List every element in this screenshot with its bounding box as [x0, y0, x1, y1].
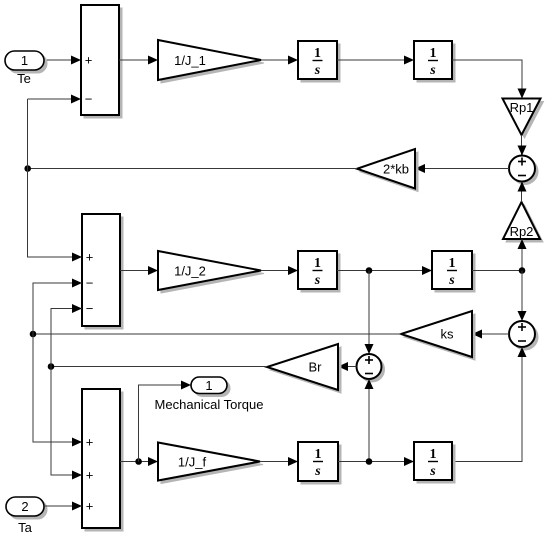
svg-text:s: s	[448, 273, 455, 288]
svg-text:Te: Te	[17, 71, 31, 86]
svg-text:−: −	[85, 92, 93, 107]
svg-text:1: 1	[449, 256, 456, 271]
wire rail up to Sum1 minus corner	[27, 99, 29, 169]
wire Sum1 to gain 1/J_1	[119, 56, 158, 65]
wire Rp2 to C1 bottom	[518, 182, 527, 203]
svg-text:2: 2	[21, 499, 28, 514]
output port 1 (Mechanical Torque)	[191, 377, 230, 397]
node junction at (51,366.5)	[48, 363, 55, 370]
wire rail down to S3 plus2	[51, 367, 82, 480]
wire ks to left rail x=33	[33, 333, 401, 335]
svg-text:2*kb: 2*kb	[383, 162, 409, 177]
wire I22 to node(522,270.5)	[472, 270, 522, 272]
svg-text:1: 1	[314, 46, 321, 61]
integrator I11 (1/s)	[298, 41, 340, 82]
svg-text:Br: Br	[309, 360, 323, 375]
svg-text:s: s	[314, 464, 321, 479]
wire 1/J_f to I41	[260, 457, 298, 466]
wire I11 to I12	[337, 56, 414, 65]
svg-text:+: +	[86, 250, 94, 265]
svg-text:−: −	[86, 301, 94, 316]
wire I21 to I22 with junction	[337, 266, 432, 275]
wire 1/J_2 to I21	[261, 266, 298, 275]
svg-text:+: +	[85, 53, 93, 68]
wire rail down to S3 plus1	[33, 334, 82, 447]
wire branch up to output port 1	[139, 381, 191, 462]
wire Ta to S3 plus3	[44, 502, 82, 511]
svg-text:1: 1	[430, 447, 437, 462]
svg-text:1: 1	[205, 378, 212, 393]
svg-text:Rp1: Rp1	[510, 100, 534, 115]
wire node(522,270.5) down to sum circle C2 top	[518, 271, 527, 322]
wire rail up to S2 minus1	[33, 279, 82, 335]
svg-text:1/J_2: 1/J_2	[174, 264, 206, 279]
svg-text:+: +	[86, 435, 94, 450]
sum block S2	[82, 214, 123, 329]
svg-text:s: s	[314, 273, 321, 288]
node junction at (33,334)	[30, 331, 37, 338]
gain 1/J_2	[158, 251, 264, 293]
gain Br (left)	[267, 344, 341, 393]
wire rail down to Sum2 plus corner	[28, 169, 82, 258]
sum block S1	[81, 5, 122, 118]
wire gain 1/J_1 to integrator I11	[261, 56, 298, 65]
wire C4 to gain Br	[338, 362, 357, 371]
svg-text:ks: ks	[441, 327, 455, 342]
svg-text:+: +	[86, 468, 94, 483]
wire Rp1 to sum circle C1	[518, 135, 527, 156]
node junction at (522,270.5)	[519, 267, 526, 274]
integrator I42 (1/s)	[414, 442, 455, 483]
wire 2*kb to left rail x=27.7	[28, 168, 357, 170]
gain Rp1 (down)	[503, 99, 544, 139]
wire S3 out to gain 1/J_f	[120, 461, 158, 463]
svg-text:s: s	[429, 63, 436, 78]
sum block S3	[82, 389, 123, 531]
wire loop from I42 up to C2 bottom	[452, 347, 527, 462]
svg-text:1: 1	[21, 53, 28, 68]
wire C2 to gain ks	[472, 330, 509, 339]
wire node(369,461.5) up to C4 bottom	[365, 379, 374, 462]
gain Rp2 (up)	[503, 202, 543, 242]
svg-text:1/J_1: 1/J_1	[174, 53, 206, 68]
svg-text:+: +	[86, 499, 94, 514]
svg-text:Ta: Ta	[18, 520, 33, 535]
sum circle C1	[509, 156, 538, 185]
wire feedback to Sum1 minus	[28, 95, 81, 104]
gain 1/J_1	[158, 40, 264, 83]
wire Br to left rail x=51	[51, 366, 267, 368]
gain 2*kb (left)	[357, 149, 418, 192]
node junction at (369,461.5)	[366, 458, 373, 465]
wire I41 to I42 with junction	[338, 457, 414, 466]
sum circle C4	[357, 354, 385, 382]
wire C1 to gain 2*kb	[415, 164, 509, 173]
svg-text:1: 1	[430, 46, 437, 61]
svg-text:s: s	[314, 63, 321, 78]
wire I12 to Rp1	[452, 60, 527, 99]
wire node(522,270.5) up to Rp2 input	[518, 239, 527, 271]
gain 1/J_f	[158, 443, 263, 484]
svg-text:−: −	[86, 276, 94, 291]
svg-text:s: s	[429, 464, 436, 479]
wire node(369,270.5) down to sum circle C4 top	[365, 271, 374, 355]
wire Te to Sum1 plus	[44, 56, 81, 65]
input port 1 (Te)	[5, 51, 47, 73]
integrator I22 (1/s)	[432, 251, 475, 292]
svg-text:1: 1	[315, 447, 322, 462]
gain ks (left)	[401, 311, 475, 360]
input port 2 (Ta)	[6, 497, 47, 519]
node junction at (369,270.5)	[366, 267, 373, 274]
svg-text:1/J_f: 1/J_f	[178, 455, 207, 470]
integrator I12 (1/s)	[414, 41, 455, 82]
wire rail up to S2 minus2	[51, 304, 82, 367]
integrator I41 (1/s)	[298, 442, 341, 484]
svg-text:1: 1	[314, 256, 321, 271]
wire S2 to gain 1/J_2	[120, 266, 158, 275]
node junction at (138.6,461.5)	[135, 458, 142, 465]
node junction at (27.7,168.5)	[24, 165, 31, 172]
svg-text:Rp2: Rp2	[510, 224, 534, 239]
integrator I21 (1/s)	[298, 251, 340, 292]
sum circle C2	[509, 321, 538, 350]
svg-text:Mechanical Torque: Mechanical Torque	[155, 397, 264, 412]
